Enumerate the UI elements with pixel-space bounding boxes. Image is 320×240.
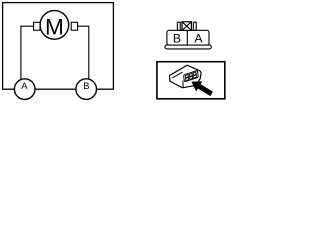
terminal slots row 2: [186, 78, 189, 81]
motor brush right: [71, 22, 77, 30]
terminal circle A: [14, 79, 35, 100]
circuit outer box (left enclosure): [3, 3, 114, 90]
connector base flange: [165, 45, 211, 49]
terminal slots row 1: [185, 75, 188, 78]
terminal circle B: [76, 79, 97, 100]
svg-text:B: B: [173, 31, 181, 45]
connector housing valley edge: [182, 81, 184, 88]
latch tab left: [177, 22, 180, 30]
latch lock (crossed box): [182, 22, 191, 31]
wire: right elbow from motor brush down to terminal B: [78, 26, 89, 79]
svg-text:A: A: [21, 80, 28, 91]
motor brush left: [34, 22, 40, 30]
svg-text:M: M: [45, 15, 64, 40]
latch tab right: [193, 22, 196, 30]
connector body: [167, 30, 209, 45]
terminal grid plate: [184, 70, 199, 81]
pointer arrow: [192, 82, 213, 96]
svg-text:A: A: [194, 31, 203, 45]
connector cavity divider: [186, 30, 188, 45]
motor M1 circle: [40, 11, 69, 40]
connector housing step ridge: [172, 72, 182, 78]
connector housing 3D body silhouette: [170, 65, 202, 88]
wire: left elbow from motor brush down to terminal A: [21, 26, 34, 79]
location icon frame: [157, 62, 225, 99]
svg-text:B: B: [83, 80, 89, 91]
